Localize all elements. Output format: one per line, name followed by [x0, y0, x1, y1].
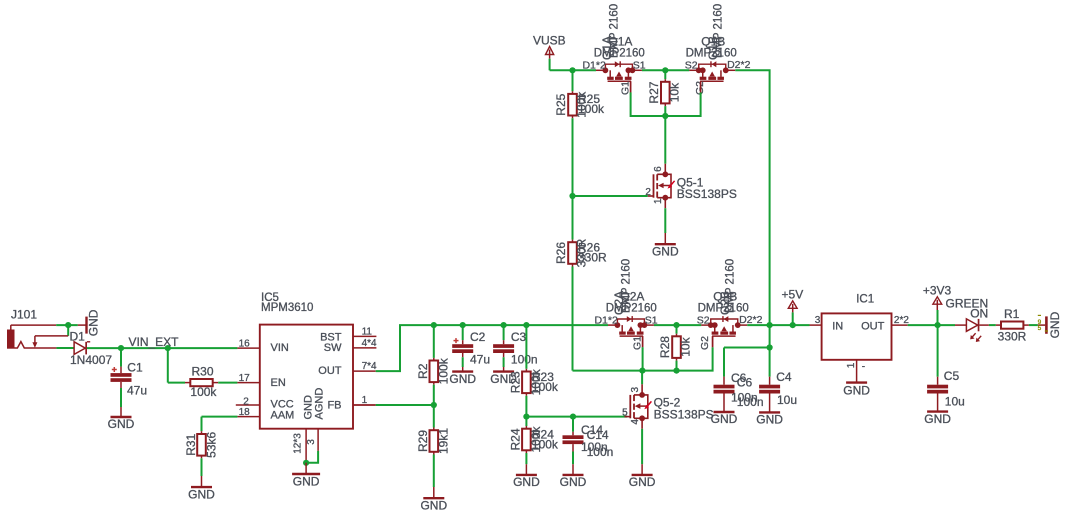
svg-text:10k: 10k — [679, 336, 693, 356]
svg-text:GND: GND — [560, 475, 587, 489]
svg-text:G2: G2 — [699, 336, 711, 350]
svg-text:R25: R25 — [554, 93, 568, 115]
svg-text:Q1B: Q1B — [701, 34, 725, 48]
svg-text:GND: GND — [449, 372, 476, 386]
svg-text:47u: 47u — [127, 383, 147, 397]
svg-text:S1: S1 — [633, 60, 646, 72]
svg-text:C5: C5 — [944, 369, 960, 383]
svg-text:SW: SW — [324, 342, 342, 354]
svg-text:100n: 100n — [737, 395, 764, 409]
svg-text:EN: EN — [271, 377, 286, 389]
svg-text:VUSB: VUSB — [533, 33, 566, 47]
svg-text:C2: C2 — [470, 330, 486, 344]
svg-text:-: - — [862, 361, 865, 372]
svg-text:R1: R1 — [1004, 307, 1020, 321]
svg-text:S1: S1 — [645, 315, 658, 327]
svg-text:IN: IN — [832, 320, 843, 332]
svg-text:5: 5 — [622, 408, 628, 419]
svg-text:Q2A: Q2A — [620, 289, 644, 303]
svg-text:R2: R2 — [416, 363, 430, 379]
svg-text:4*4: 4*4 — [362, 338, 377, 349]
svg-text:BSS138PS: BSS138PS — [677, 187, 737, 201]
svg-text:GND: GND — [188, 487, 215, 501]
svg-text:330R: 330R — [998, 329, 1027, 343]
svg-text:R28: R28 — [658, 336, 672, 358]
svg-text:R29: R29 — [416, 430, 430, 452]
svg-text:GND: GND — [302, 395, 314, 420]
svg-text:BSS138PS: BSS138PS — [654, 407, 714, 421]
svg-text:AGND: AGND — [314, 388, 326, 420]
svg-text:GND: GND — [711, 412, 738, 426]
svg-text:GND: GND — [652, 244, 679, 258]
svg-text:Q1A: Q1A — [608, 34, 632, 48]
svg-text:D2*2: D2*2 — [739, 314, 763, 326]
svg-text:R30: R30 — [192, 364, 214, 378]
svg-text:10u: 10u — [777, 393, 797, 407]
svg-text:C6: C6 — [737, 375, 753, 389]
svg-text:GND: GND — [420, 499, 447, 513]
svg-text:S2: S2 — [685, 60, 698, 72]
svg-text:GND: GND — [1048, 311, 1062, 338]
svg-text:100k: 100k — [436, 357, 450, 384]
svg-text:2*2: 2*2 — [894, 315, 909, 326]
svg-text:DMP2160: DMP2160 — [606, 302, 657, 314]
svg-text:DMP2160: DMP2160 — [698, 302, 749, 314]
svg-text:100k: 100k — [578, 102, 605, 116]
svg-text:IC1: IC1 — [856, 294, 874, 306]
svg-text:GND: GND — [629, 475, 656, 489]
svg-text:1: 1 — [653, 198, 664, 204]
svg-text:R24: R24 — [509, 428, 523, 450]
svg-text:J101: J101 — [11, 307, 37, 321]
svg-text:D2*2: D2*2 — [727, 59, 751, 71]
svg-text:GND: GND — [924, 412, 951, 426]
svg-text:18: 18 — [239, 407, 251, 418]
svg-text:GND: GND — [513, 475, 540, 489]
svg-text:19k1: 19k1 — [436, 428, 450, 454]
svg-text:1: 1 — [846, 362, 857, 368]
svg-text:3: 3 — [630, 386, 641, 392]
svg-text:6: 6 — [653, 166, 664, 172]
svg-text:GND: GND — [843, 383, 870, 397]
svg-text:GND: GND — [87, 309, 101, 336]
svg-text:5: 5 — [1038, 325, 1042, 332]
svg-text:11: 11 — [362, 326, 373, 337]
svg-text:47u: 47u — [470, 352, 490, 366]
svg-text:7*4: 7*4 — [362, 361, 377, 372]
svg-text:GND: GND — [293, 475, 320, 489]
svg-text:100k: 100k — [532, 437, 559, 451]
svg-text:3: 3 — [815, 315, 821, 326]
svg-text:R27: R27 — [647, 81, 661, 103]
svg-text:VIN_EXT: VIN_EXT — [129, 335, 180, 349]
svg-text:4: 4 — [630, 419, 641, 425]
svg-text:GND: GND — [108, 417, 135, 431]
svg-text:OUT: OUT — [318, 365, 342, 377]
svg-text:DMP2160: DMP2160 — [686, 47, 737, 59]
svg-text:OUT: OUT — [861, 320, 885, 332]
svg-text:16: 16 — [239, 339, 251, 350]
svg-text:C1: C1 — [127, 360, 143, 374]
svg-text:S2: S2 — [697, 315, 710, 327]
svg-text:53k6: 53k6 — [204, 431, 218, 457]
svg-text:MPM3610: MPM3610 — [261, 302, 313, 314]
svg-text:10k: 10k — [668, 82, 682, 102]
svg-text:3: 3 — [306, 439, 317, 445]
svg-text:FB: FB — [327, 400, 341, 412]
svg-text:1N4007: 1N4007 — [70, 353, 112, 367]
svg-text:12*3: 12*3 — [292, 433, 303, 454]
svg-text:R26: R26 — [554, 242, 568, 264]
svg-text:C4: C4 — [776, 370, 792, 384]
svg-text:17: 17 — [239, 373, 251, 384]
svg-text:D1: D1 — [70, 329, 86, 343]
svg-text:AAM: AAM — [271, 409, 295, 421]
svg-text:100n: 100n — [587, 445, 614, 459]
svg-text:R23: R23 — [509, 371, 523, 393]
svg-text:+5V: +5V — [782, 288, 804, 302]
svg-text:100k: 100k — [190, 385, 217, 399]
svg-text:10u: 10u — [945, 394, 965, 408]
svg-text:R31: R31 — [184, 433, 198, 455]
svg-text:C3: C3 — [511, 330, 527, 344]
svg-text:D1*2: D1*2 — [594, 315, 618, 327]
svg-text:330R: 330R — [578, 251, 607, 265]
svg-text:100k: 100k — [532, 380, 559, 394]
svg-text:D1*2: D1*2 — [582, 60, 606, 72]
svg-text:GND: GND — [756, 413, 783, 427]
svg-text:Q2B: Q2B — [713, 289, 737, 303]
svg-text:ON: ON — [970, 306, 988, 320]
svg-text:VIN: VIN — [271, 342, 289, 354]
svg-text:DMP2160: DMP2160 — [594, 47, 645, 59]
svg-text:100n: 100n — [511, 352, 538, 366]
